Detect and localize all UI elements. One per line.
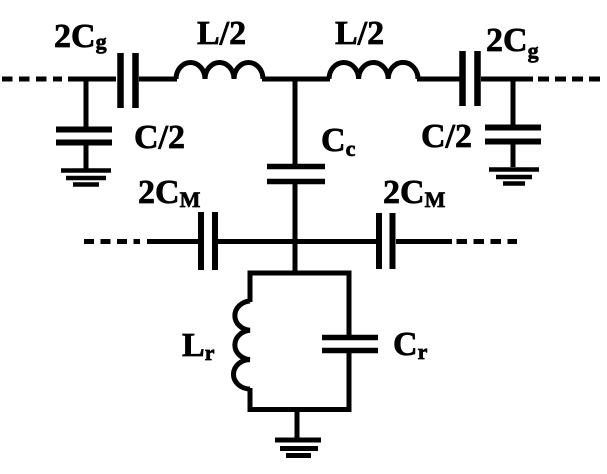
ground bottom [275,440,321,456]
capacitor Cc [267,167,325,182]
capacitor 2CM right [379,213,393,269]
capacitor 2Cg left [121,53,136,108]
resonator box left wire upper [248,271,253,303]
wire top-right dashed lead [538,77,600,82]
wire top-left solid segment [68,77,116,82]
ground right [489,170,539,184]
capacitor 2Cg right [463,51,478,106]
svg-text:2CM: 2CM [383,174,446,212]
svg-text:2Cg: 2Cg [54,18,107,55]
svg-text:2Cg: 2Cg [486,22,539,63]
wire 2Cg-left to inductor [139,77,177,82]
capacitor C/2 left [56,130,112,143]
svg-text:C/2: C/2 [134,119,185,156]
capacitor C/2 right [485,128,541,142]
wire middle-right dashed lead [457,239,518,244]
wire C/2-right to ground [511,144,516,167]
svg-text:L/2: L/2 [335,15,384,52]
resonator box top wire [250,271,349,276]
wire 2CM-left to center [218,239,378,244]
wire inductor-right to 2Cg-right [417,77,460,82]
svg-text:Lr: Lr [182,327,215,365]
inductor L/2 left [176,63,263,79]
capacitor 2CM left [201,212,215,270]
node center top junction [293,77,298,165]
resonator box bottom wire [248,407,352,412]
wire middle-left dashed lead [84,239,140,244]
svg-text:Cr: Cr [393,326,428,364]
capacitor Cr [322,338,378,351]
wire inductor-left to center node [262,77,330,82]
wire C/2-left to ground [84,145,89,169]
resonator box right wire upper [347,271,352,337]
wire resonator to ground [295,410,300,439]
svg-text:2CM: 2CM [138,174,201,212]
inductor L/2 right [329,62,418,79]
wire top-left dashed lead [2,77,62,82]
svg-text:L/2: L/2 [197,15,246,52]
wire right shunt drop [511,77,516,126]
wire middle-left solid segment [147,239,198,244]
resonator box right wire lower [347,353,352,412]
wire 2CM-right solid segment [396,239,452,244]
ground left [61,171,111,185]
wire Cc to resonator [293,184,298,273]
wire 2Cg-right to right junction [481,77,533,82]
wire left shunt drop [84,77,89,128]
inductor Lr [234,301,250,389]
resonator box left wire lower [248,388,253,412]
svg-text:Cc: Cc [321,122,356,161]
svg-text:C/2: C/2 [421,118,472,155]
